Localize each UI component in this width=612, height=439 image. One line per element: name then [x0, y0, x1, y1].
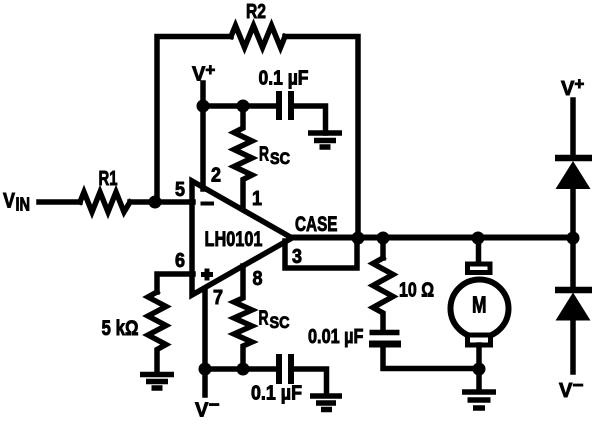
capacitor C2 0.1uF bottom plates: [279, 354, 291, 384]
wire output node to diode D2: [570, 238, 576, 290]
svg-text:5: 5: [175, 179, 185, 201]
svg-text:R: R: [259, 144, 269, 166]
diode D2: [556, 293, 591, 321]
label VIN: [3, 190, 30, 215]
svg-text:3: 3: [292, 246, 302, 268]
node motor branch junction: [472, 232, 485, 245]
motor M1 body: [451, 280, 509, 338]
node V- rail / RSC junction: [237, 363, 250, 376]
wire pin 7 to V- rail: [202, 289, 208, 369]
svg-text:V−: V−: [195, 395, 219, 422]
svg-text:SC: SC: [270, 313, 290, 332]
resistor 5k: [148, 292, 166, 374]
svg-text:R2: R2: [246, 1, 266, 23]
wire cap to ground bottom: [291, 369, 327, 394]
wire motor to ground node: [476, 345, 482, 391]
svg-text:8: 8: [253, 268, 263, 290]
resistor 10 ohm: [373, 258, 393, 330]
node diode column junction: [567, 232, 580, 245]
svg-text:V: V: [3, 190, 15, 213]
wire V+ supply stem to pin 2: [200, 83, 206, 189]
svg-text:V−: V−: [559, 376, 583, 403]
capacitor C1 0.1uF top plates: [279, 91, 291, 120]
resistor RSC (top): [234, 106, 252, 207]
svg-text:6: 6: [175, 250, 185, 272]
wire input from VIN: [39, 199, 193, 205]
svg-text:LH0101: LH0101: [205, 228, 263, 251]
label RSC bottom: [259, 308, 290, 333]
motor M1 bottom brush: [468, 335, 491, 345]
wire V- rail: [205, 366, 276, 372]
svg-text:0.1 µF: 0.1 µF: [251, 383, 302, 405]
capacitor C3 0.01uF plates: [370, 330, 400, 336]
wire V+ to diode D1: [570, 100, 576, 158]
wire V- stub: [202, 369, 208, 395]
wire 10 ohm branch: [380, 238, 386, 258]
node motor ground junction: [473, 363, 486, 376]
resistor R2: [231, 26, 285, 48]
svg-text:10 Ω: 10 Ω: [399, 280, 434, 302]
svg-text:R: R: [259, 308, 269, 330]
wire output rail: [291, 235, 573, 241]
resistor RSC (bottom): [234, 266, 252, 369]
plus sign noninverting input: [201, 269, 213, 281]
svg-text:0.1 µF: 0.1 µF: [259, 68, 309, 90]
ground (top 0.1uF): [308, 133, 342, 147]
node V- stem junction: [199, 363, 212, 376]
svg-text:2: 2: [211, 165, 221, 187]
label RSC top: [259, 144, 290, 169]
svg-text:SC: SC: [270, 149, 290, 168]
svg-text:V+: V+: [192, 61, 215, 86]
node feedback / output junction: [352, 232, 365, 245]
svg-text:IN: IN: [16, 195, 31, 215]
svg-text:R1: R1: [99, 168, 118, 190]
svg-text:CASE: CASE: [295, 213, 338, 236]
wire cap to ground top: [291, 106, 326, 133]
svg-text:V+: V+: [561, 75, 584, 101]
op-amp U1 LH0101 triangle: [192, 181, 292, 295]
wire cap3 to V- node of motor: [383, 348, 479, 369]
node 10 ohm branch junction: [377, 232, 390, 245]
diode D1: [556, 161, 591, 189]
wire V+ rail: [203, 103, 277, 109]
svg-text:M: M: [472, 292, 487, 318]
node V+ rail / RSC junction: [237, 100, 250, 113]
wire noninverting input pin 6: [157, 274, 193, 292]
wire D2 to V-: [570, 320, 576, 372]
wire motor branch: [476, 238, 482, 264]
svg-text:5 kΩ: 5 kΩ: [102, 317, 139, 340]
minus sign inverting input: [201, 202, 215, 206]
diode D1 cathode bar: [555, 155, 592, 162]
ground (bottom 0.1uF): [310, 396, 342, 410]
svg-text:7: 7: [213, 287, 223, 309]
ground (motor): [462, 392, 496, 408]
ground (5k resistor): [140, 375, 174, 389]
wire feedback top (R2 loop top): [157, 37, 358, 239]
svg-text:0.01 µF: 0.01 µF: [308, 326, 364, 348]
motor M1 top brush: [468, 264, 491, 273]
wire D1 to output node: [570, 189, 576, 238]
svg-text:1: 1: [252, 188, 262, 210]
node VIN-R2 junction: [149, 196, 162, 209]
resistor R1: [80, 192, 130, 212]
node V+ stem junction: [197, 100, 210, 113]
wire pin 3 case box: [285, 238, 357, 268]
diode D2 cathode bar: [555, 287, 592, 294]
